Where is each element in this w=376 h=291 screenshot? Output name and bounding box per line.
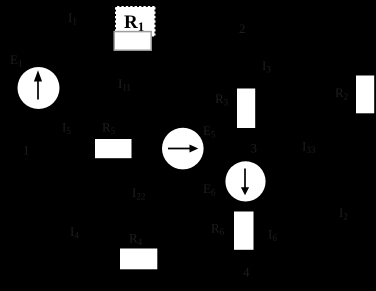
svg-text:2: 2 [239,21,246,36]
source J1 (circle, up arrow) [18,67,60,109]
source J5 (circle, right arrow) [162,128,204,170]
svg-text:1: 1 [23,143,30,158]
svg-text:4: 4 [243,265,250,280]
resistor R2 [356,76,374,114]
resistor R1 [114,32,151,51]
source J6 (circle, down arrow) [225,161,265,201]
svg-text:3: 3 [251,141,258,156]
resistor R5 [95,139,132,158]
resistor R6 [234,212,254,250]
resistor R4 [120,249,157,270]
resistor R3 [237,89,255,129]
label box R1 (hatched text-frame) [115,6,156,37]
